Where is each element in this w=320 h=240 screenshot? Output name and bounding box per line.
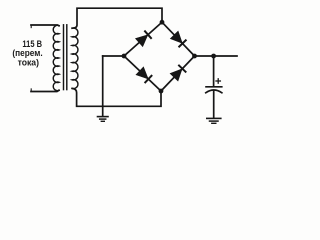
svg-text:тока): тока) bbox=[18, 57, 39, 67]
